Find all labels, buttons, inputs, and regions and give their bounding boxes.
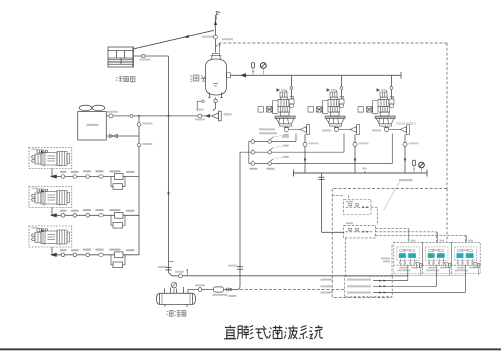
- receiver label (drawn): [167, 310, 186, 316]
- (可调节) label left of evaps: [381, 258, 390, 263]
- valve on liquid line: [179, 274, 183, 278]
- trap at bottom into dashed liquid line: [235, 286, 240, 290]
- valve station 2: [308, 88, 360, 134]
- 式: [255, 326, 268, 339]
- compressor unit 2: [29, 187, 72, 208]
- evaporator 3: [451, 242, 480, 275]
- flange on suction drop: [319, 177, 325, 179]
- union on downcomer: [166, 268, 172, 270]
- fan unit bottom pipe: [106, 135, 139, 137]
- valve on condenser outlet: [142, 54, 145, 57]
- condenser label 冷凝器 (drawn glyphs): [116, 76, 135, 82]
- 液: [284, 326, 298, 340]
- receiver gauge: [171, 282, 177, 293]
- 直: [224, 325, 236, 339]
- 系: [299, 326, 307, 340]
- evaporator 1: [394, 242, 423, 275]
- right discharge nozzle: [227, 73, 231, 78]
- suction drops from port flanges to suction header: [305, 134, 405, 173]
- legs: [164, 305, 166, 308]
- fan unit top pipe: [106, 115, 212, 117]
- solenoid box 1: [344, 200, 371, 215]
- thermometer on header: [252, 63, 255, 76]
- labels under filter: [213, 294, 237, 297]
- evap center drops to liquid rows: [408, 270, 466, 293]
- tiny label on dashed start: [222, 38, 233, 40]
- stub pin on liquid line: [186, 271, 188, 276]
- valve station 3: [358, 88, 410, 134]
- top stubs: [164, 289, 166, 294]
- solenoid box 2: [344, 225, 376, 238]
- small trap left: [197, 101, 202, 111]
- tiny label left of safety valve: [202, 36, 214, 38]
- suction branch rows to evap risers: [346, 229, 466, 276]
- 满: [269, 326, 283, 340]
- flow arrow to oil valve: [205, 114, 211, 118]
- filter drier: [214, 287, 224, 292]
- riser labels above evaps: [411, 240, 473, 242]
- svg-text:FEM-100A: FEM-100A: [396, 121, 416, 126]
- vent arrow + flag: [214, 20, 217, 25]
- union on liquid vertical: [237, 267, 243, 270]
- label 电磁阀组 + leader: [399, 179, 413, 181]
- float marks inside: [213, 83, 218, 85]
- flow arrow on discharge header: [240, 73, 246, 77]
- compressor unit 1: [29, 148, 72, 169]
- evaporator 2: [423, 242, 452, 275]
- station 1 text labels: [259, 128, 381, 137]
- header gauges right: [413, 160, 416, 173]
- side tick on downcomer: [169, 261, 174, 263]
- shutoff valve on filter line: [198, 288, 202, 292]
- header mid tick + tiny label: [364, 171, 366, 173]
- pressure gauge on header: [253, 63, 266, 76]
- tiny label: [140, 59, 151, 61]
- sight glass: [226, 288, 229, 291]
- junction dots: [138, 115, 140, 117]
- oil cone valve: [212, 111, 221, 121]
- safety valve circle: [214, 35, 218, 39]
- flow arrow on diagonal: [183, 35, 189, 38]
- dashed liquid feed to solenoid boxes: [240, 289, 345, 291]
- legs: [209, 93, 211, 98]
- 膨: [237, 326, 253, 340]
- compressor unit 3: [29, 226, 72, 247]
- 统: [309, 326, 323, 339]
- big dashed enclosure: [332, 188, 447, 297]
- manifold labels below: [250, 168, 275, 170]
- valve station 1: [258, 88, 310, 134]
- oil separator label 油分: [190, 75, 206, 81]
